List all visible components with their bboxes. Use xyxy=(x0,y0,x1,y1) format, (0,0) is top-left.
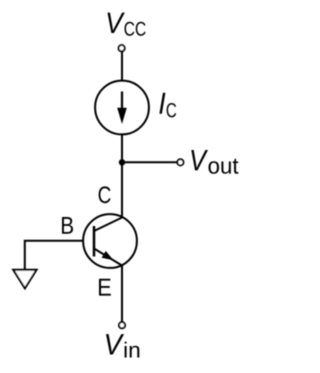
transistor Q1 body xyxy=(83,214,137,268)
label E emitter xyxy=(99,279,111,296)
terminal Vout xyxy=(177,159,183,165)
wire base to ground corner xyxy=(25,241,84,270)
transistor emitter arrowhead xyxy=(102,251,114,260)
label IC xyxy=(159,93,176,118)
current source arrow xyxy=(117,92,127,125)
transistor base bar xyxy=(93,226,96,257)
wire VCC terminal to current source xyxy=(121,52,123,81)
label VCC xyxy=(108,13,146,36)
transistor collector line xyxy=(94,218,122,232)
ground symbol xyxy=(13,270,36,289)
terminal Vin xyxy=(119,322,125,328)
node junction xyxy=(119,159,125,165)
label Vin xyxy=(106,334,139,357)
wire current source to collector xyxy=(121,134,123,218)
terminal VCC xyxy=(119,45,125,51)
label B base xyxy=(62,217,73,234)
label Vout xyxy=(191,150,238,174)
wire node to Vout terminal xyxy=(122,161,177,163)
transistor emitter line xyxy=(94,249,122,266)
current source I1 xyxy=(95,81,149,135)
label C collector xyxy=(99,186,111,203)
wire emitter to Vin terminal xyxy=(121,265,123,322)
